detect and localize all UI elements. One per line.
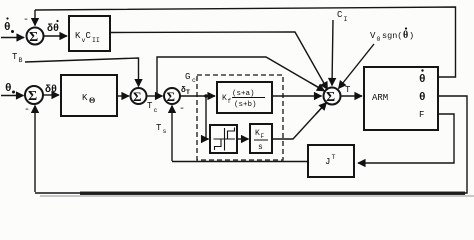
svg-text:II: II <box>92 37 100 44</box>
summing junction S1 <box>27 28 44 45</box>
wire feedback into S1 top <box>34 10 36 26</box>
svg-text:Σ: Σ <box>133 89 142 104</box>
block Kf(s+a)/(s+b) <box>217 82 272 113</box>
label delta-theta <box>45 84 57 96</box>
relay symbol axes <box>214 128 236 151</box>
block KF/s <box>250 124 272 153</box>
label KvCII <box>75 31 100 44</box>
svg-text:Θ: Θ <box>89 96 95 105</box>
label Tc <box>147 101 158 114</box>
wire relay to KF/s <box>237 138 249 140</box>
summing junction S5 <box>324 88 341 105</box>
label theta-dot-e <box>4 17 14 34</box>
wire S4 to Kf block <box>180 95 215 97</box>
svg-text:θ: θ <box>5 83 12 95</box>
node branch junction <box>204 94 207 97</box>
wire branch down to relay <box>206 96 209 139</box>
svg-text:T: T <box>147 101 153 111</box>
svg-text:Σ: Σ <box>28 89 37 104</box>
svg-text:(s+a): (s+a) <box>232 90 255 98</box>
block ARM <box>364 67 438 130</box>
label Ts <box>156 123 167 135</box>
wire arrowhead KF/s into S5 <box>316 103 327 115</box>
block JT <box>308 145 354 177</box>
svg-text:C: C <box>337 10 343 20</box>
svg-text:I: I <box>344 16 348 23</box>
summing junction S3 <box>131 88 147 104</box>
wire JT output to Ts <box>172 161 308 163</box>
wire S1 to KvCII <box>44 35 67 37</box>
svg-text:c: c <box>154 107 158 114</box>
wire Tc feedforward branch to S5 <box>157 57 325 96</box>
summing junction S4 <box>164 88 180 104</box>
svg-text:J: J <box>325 157 330 167</box>
wire S2 to Ktheta <box>43 94 59 96</box>
svg-text:K: K <box>222 94 227 103</box>
svg-text:C: C <box>86 31 92 41</box>
svg-text:Σ: Σ <box>29 30 38 45</box>
block relay nonlinearity <box>210 125 237 153</box>
wire V0sgn into S5 <box>339 44 375 89</box>
svg-text:θ: θ <box>419 74 426 86</box>
wire KvCII to S5 <box>110 32 328 90</box>
wire input theta-e <box>1 95 24 97</box>
label thetadot out <box>419 69 426 86</box>
wire theta feedback bottom loop <box>35 96 467 193</box>
svg-text:c: c <box>192 77 196 84</box>
svg-text:V: V <box>370 31 376 41</box>
label Kf fraction <box>222 90 265 109</box>
wire input theta-dot-e <box>1 37 24 39</box>
svg-text:Σ: Σ <box>326 90 335 105</box>
svg-text:K: K <box>255 129 260 138</box>
svg-text:T: T <box>12 52 18 62</box>
wire S3 to S4 <box>147 95 163 97</box>
svg-text:δθ: δθ <box>45 84 57 96</box>
svg-text:-: - <box>24 105 30 116</box>
wire Ts into S4 bottom <box>171 106 173 162</box>
svg-text:): ) <box>409 31 414 41</box>
svg-text:-: - <box>23 15 29 26</box>
svg-text:s: s <box>258 143 263 152</box>
label CI <box>337 10 348 23</box>
wire thetadot feedback top loop <box>35 7 456 77</box>
label V0 sgn thetadot <box>370 27 414 43</box>
svg-text:T: T <box>186 89 190 96</box>
svg-text:Σ: Σ <box>167 89 176 104</box>
svg-text:K: K <box>82 93 88 103</box>
wire TB into S3 top <box>25 58 139 87</box>
label Gc <box>185 72 196 84</box>
svg-text:F: F <box>419 110 424 120</box>
svg-text:B: B <box>19 57 23 64</box>
label Ktheta <box>82 93 95 105</box>
label delta-theta-dot <box>47 20 59 35</box>
svg-text:s: s <box>163 128 167 135</box>
wire F output to JT <box>358 114 454 163</box>
wire Kf output to S5 <box>272 95 322 97</box>
svg-text:-: - <box>179 104 185 115</box>
summing junction S2 <box>25 86 43 104</box>
svg-text:ARM: ARM <box>372 93 388 103</box>
label JT <box>325 154 336 167</box>
wire KF/s to S5 <box>272 103 327 140</box>
wire CI into S5 <box>332 20 333 86</box>
svg-text:F: F <box>261 133 265 140</box>
svg-text:K: K <box>75 31 81 41</box>
wire Ktheta to S3 <box>117 95 129 97</box>
block Ktheta <box>61 75 117 116</box>
svg-text:(s+b): (s+b) <box>234 101 257 109</box>
label KF over s <box>254 129 268 152</box>
svg-text:T: T <box>332 154 336 161</box>
svg-text:T: T <box>156 123 162 133</box>
svg-text:G: G <box>185 72 190 82</box>
svg-text:T: T <box>345 85 351 95</box>
svg-text:θ: θ <box>419 92 426 104</box>
svg-text:θ: θ <box>4 22 11 34</box>
block KvCII <box>69 16 110 51</box>
svg-text:θ: θ <box>403 30 408 41</box>
label TB <box>12 52 23 64</box>
wire arrowhead Tc into S5 <box>310 83 325 92</box>
svg-text:f: f <box>228 98 232 105</box>
svg-text:0: 0 <box>377 36 381 43</box>
bottom scan smear band <box>80 192 465 196</box>
label deltaT <box>181 86 190 96</box>
dashed box Gc <box>197 75 283 160</box>
label theta-e <box>5 83 15 95</box>
wire T output S5 to ARM <box>341 95 363 97</box>
svg-text:sgn(: sgn( <box>382 31 402 41</box>
label theta out <box>419 92 426 104</box>
bottom scan shadow <box>40 195 474 197</box>
svg-text:δθ: δθ <box>47 23 59 35</box>
wire feedback into S2 bottom <box>34 106 36 193</box>
